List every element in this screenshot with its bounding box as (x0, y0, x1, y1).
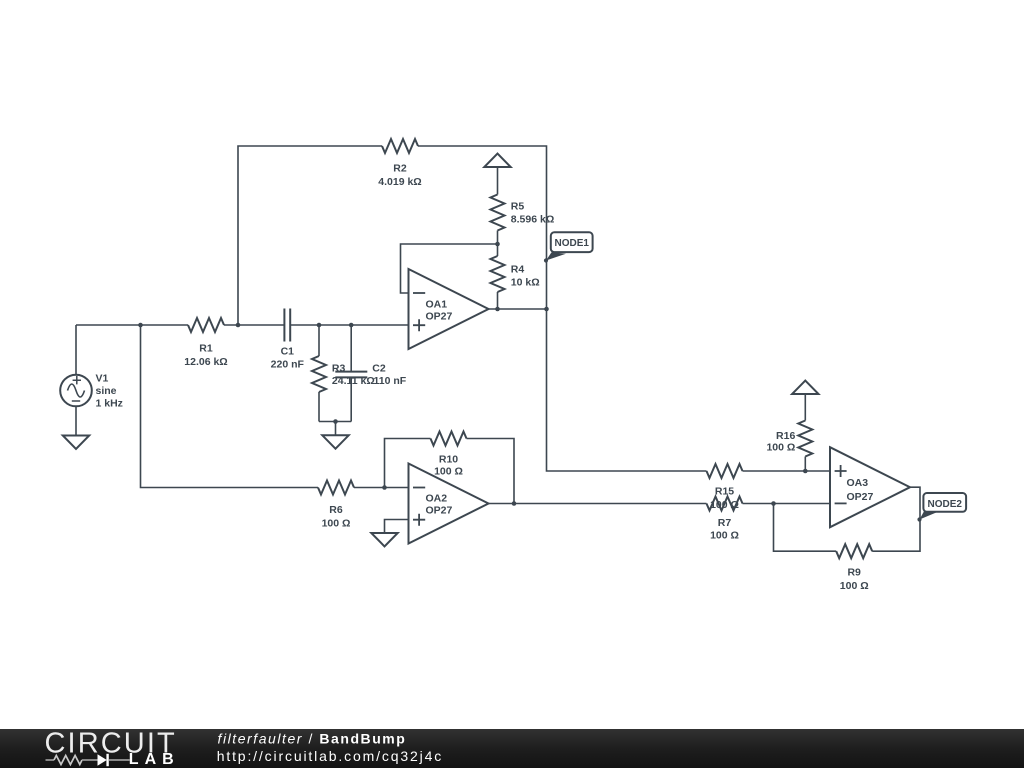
svg-text:V1: V1 (96, 372, 109, 384)
node NODE2 (917, 493, 966, 522)
svg-text:8.596 kΩ: 8.596 kΩ (511, 214, 554, 226)
logo diode (98, 754, 107, 765)
node junction R3 top (317, 323, 322, 328)
wire OA1 inverting loop (401, 244, 498, 293)
wire R9 to inverting junction (774, 504, 837, 552)
node junction C2 top (349, 323, 354, 328)
svg-text:filterfaulter / BandBump: filterfaulter / BandBump (218, 731, 407, 747)
wire lower branch to R6 (141, 325, 319, 488)
wire arrow to R5 (497, 167, 499, 195)
svg-text:R4: R4 (511, 264, 525, 276)
wire OA3 output feedback (872, 487, 920, 551)
svg-text:R16: R16 (776, 430, 795, 442)
wire R16 to junction (804, 457, 806, 472)
resistor R2 (378, 139, 421, 188)
wire V1 top (75, 325, 77, 375)
resistor R16 (766, 421, 812, 457)
label V1 sine 1 kHz (96, 372, 123, 409)
wire OA1 output (489, 308, 547, 310)
svg-text:R6: R6 (329, 504, 343, 516)
svg-text:NODE2: NODE2 (927, 499, 962, 510)
svg-text:OP27: OP27 (847, 491, 874, 503)
wire V1 bottom (75, 407, 77, 436)
svg-text:R9: R9 (847, 567, 861, 579)
ground at OA2 + input (371, 533, 397, 546)
resistor R15 (707, 464, 743, 511)
node junction R16/OA3 + (803, 469, 808, 474)
svg-text:R10: R10 (439, 454, 458, 466)
svg-text:R5: R5 (511, 201, 525, 213)
wire R7 to OA3 - input (743, 503, 831, 505)
node junction R4 bottom/output (495, 307, 500, 312)
svg-text:R1: R1 (199, 343, 213, 355)
capacitor C1 (271, 309, 305, 371)
wire R3/C2 bottom rail (319, 421, 351, 423)
wire main input net (76, 324, 188, 326)
svg-text:OP27: OP27 (426, 504, 453, 516)
svg-text:4.019 kΩ: 4.019 kΩ (378, 176, 421, 188)
svg-text:R2: R2 (393, 163, 407, 175)
svg-text:220 nF: 220 nF (271, 358, 305, 370)
svg-text:sine: sine (96, 385, 117, 397)
power supply arrow above R5 (484, 154, 510, 167)
svg-text:100 Ω: 100 Ω (710, 529, 739, 541)
svg-text:C1: C1 (281, 345, 295, 357)
node junction OA2 inverting (382, 485, 387, 490)
resistor R9 (836, 544, 872, 592)
svg-text:100 Ω: 100 Ω (766, 441, 795, 453)
wire R2 to right vertical (418, 146, 707, 471)
svg-text:12.06 kΩ: 12.06 kΩ (184, 356, 227, 368)
logo wire (46, 759, 55, 761)
node junction main/R6 branch (138, 323, 143, 328)
svg-text:OA3: OA3 (847, 477, 869, 489)
wire R10 loop (385, 439, 431, 488)
wire R5 to junction (497, 231, 499, 245)
node junction R10/OA2 output (512, 501, 517, 506)
svg-text:10 kΩ: 10 kΩ (511, 277, 540, 289)
svg-text:100 Ω: 100 Ω (840, 580, 869, 592)
wire C1 to OA1 + input (290, 324, 408, 326)
svg-text:1 kHz: 1 kHz (96, 397, 123, 409)
resistor R1 (184, 318, 227, 368)
svg-text:OA2: OA2 (426, 492, 448, 504)
resistor R6 (318, 481, 354, 530)
svg-text:R15: R15 (715, 486, 734, 498)
op-amp OA1 OP27 (409, 269, 489, 349)
wire R10 to OA2 output (467, 439, 515, 504)
op-amp OA3 OP27 (830, 447, 910, 527)
node junction R5/R4 (495, 242, 500, 247)
svg-text:OP27: OP27 (426, 310, 453, 322)
svg-text:http://circuitlab.com/cq32j4c: http://circuitlab.com/cq32j4c (217, 748, 443, 764)
node junction output/right vertical (544, 307, 549, 312)
node junction bottom rail (333, 419, 338, 424)
svg-text:C2: C2 (372, 362, 386, 374)
node junction OA3 inverting/feedback (771, 501, 776, 506)
logo wire 2 (82, 759, 98, 761)
wire up to R2 (238, 146, 382, 325)
voltage source V1 (60, 375, 92, 407)
svg-text:NODE1: NODE1 (554, 238, 589, 249)
wire R15 to OA3 + input (743, 470, 831, 472)
logo resistor (54, 756, 82, 765)
resistor R4 (491, 244, 540, 309)
node junction main/R2 branch (236, 323, 241, 328)
resistor R7 (707, 497, 743, 542)
svg-text:110 nF: 110 nF (374, 375, 407, 387)
resistor R5 (491, 195, 555, 231)
svg-text:LAB: LAB (129, 751, 180, 768)
node NODE1 (544, 232, 593, 262)
svg-text:OA1: OA1 (426, 298, 448, 310)
logo wire 3 (109, 759, 130, 761)
wire OA2 output to R7 (489, 503, 707, 505)
resistor R3 (312, 325, 375, 422)
op-amp OA2 OP27 (409, 464, 489, 544)
power supply arrow above R16 (792, 381, 818, 394)
svg-text:100 Ω: 100 Ω (434, 466, 463, 478)
wire OA2 + input to ground (385, 520, 409, 534)
wire R6 to OA2 - input (354, 487, 409, 489)
resistor R10 (431, 432, 467, 478)
ground under R3/C2 (322, 435, 348, 448)
wire R1 to C1 (224, 324, 284, 326)
wire to ground (335, 422, 337, 436)
capacitor C2 (335, 325, 406, 422)
ground under V1 (63, 436, 89, 449)
svg-text:R7: R7 (718, 517, 732, 529)
svg-text:100 Ω: 100 Ω (322, 518, 351, 530)
wire arrow to R16 (804, 394, 806, 421)
